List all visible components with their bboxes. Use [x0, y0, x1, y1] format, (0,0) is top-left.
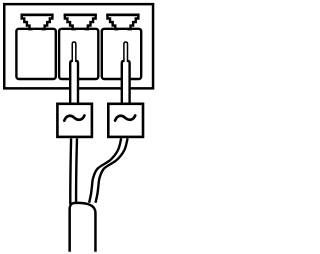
terminal 2 clamp bar — [64, 14, 97, 17]
terminal 2 left staircase — [65, 14, 76, 29]
wire 2 below box2, S-curve right line — [96, 138, 128, 203]
terminal 3 left staircase — [107, 14, 118, 29]
connector block outline — [4, 4, 153, 88]
terminal 1 right staircase — [41, 14, 52, 29]
terminal 1 body — [16, 29, 55, 79]
terminal 2 right staircase — [85, 14, 96, 29]
wire 1 below box1, right line — [75, 138, 78, 202]
wire 2 bare pin tip — [124, 42, 128, 62]
AC tilde box 1 — [64, 116, 84, 121]
cable sheath — [70, 203, 96, 252]
AC tilde box 2 — [115, 116, 135, 121]
terminal 3 body — [102, 29, 141, 79]
power supply box 1 — [57, 104, 92, 137]
terminal 1 clamp bar — [21, 14, 54, 17]
terminal 1 left staircase — [22, 14, 33, 29]
terminal 3 clamp bar — [106, 14, 139, 17]
power supply box 2 — [108, 104, 143, 137]
wire 1 below box1, left line — [69, 138, 72, 204]
terminal 2 body — [59, 29, 98, 79]
wire 2 insulated lead through terminal 3 into power box 2 — [122, 61, 130, 106]
wire 1 insulated lead through terminal 2 into power box 1 — [70, 61, 78, 106]
wire 2 below box2, S-curve left line — [89, 138, 121, 203]
wire 1 bare pin tip — [72, 42, 76, 62]
terminal 3 right staircase — [127, 14, 138, 29]
